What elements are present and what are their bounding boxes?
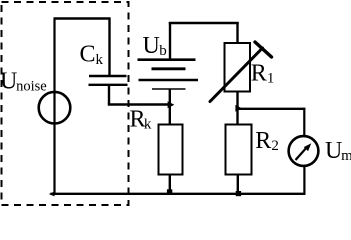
meter needle shaft xyxy=(296,148,307,160)
capacitor C_k top plate xyxy=(89,75,127,77)
meter needle arrowhead xyxy=(304,143,312,151)
svg-text:Ub: Ub xyxy=(143,33,167,59)
svg-text:Ck: Ck xyxy=(80,42,104,68)
wire: bottom bus xyxy=(51,193,306,195)
svg-text:Rk: Rk xyxy=(130,106,152,132)
svg-text:R2: R2 xyxy=(255,128,279,154)
wire: C_k top lead xyxy=(108,18,110,77)
wire: R2 bottom lead xyxy=(237,175,239,195)
battery U_b plate 4 (short thin) xyxy=(152,88,186,90)
wire: top horizontal U_noise to C_k xyxy=(54,17,111,19)
wire: battery bottom lead to R_k xyxy=(169,89,171,125)
battery U_b plate 2 (short) xyxy=(152,67,186,70)
adjustable arrow diagonal through R1 xyxy=(210,48,263,102)
svg-text:Um: Um xyxy=(325,138,351,164)
wire: R1 bottom lead to R2 xyxy=(236,92,238,126)
wire: horizontal node to meter xyxy=(238,108,305,110)
wire: U_noise vertical branch xyxy=(53,19,55,195)
wire: R_k bottom lead xyxy=(169,175,171,195)
svg-text:R1: R1 xyxy=(251,61,275,87)
junction arrow at battery node xyxy=(168,101,175,108)
battery U_b plate 1 (long) xyxy=(138,58,196,61)
capacitor C_k bottom plate xyxy=(89,84,128,86)
wire: meter bottom lead xyxy=(303,167,305,195)
junction dot at R_k bottom node xyxy=(167,189,172,194)
wire: battery top lead xyxy=(169,22,171,60)
wire: C_k bottom lead xyxy=(108,85,110,105)
resistor R_k box xyxy=(159,125,183,175)
dashed box (noise source boundary) xyxy=(2,2,129,205)
wire: top horizontal battery to R1 xyxy=(169,22,239,24)
resistor R1 box xyxy=(225,43,251,92)
wire: R1 top lead xyxy=(236,22,238,44)
meter U_m circle xyxy=(289,136,319,166)
svg-text:Unoise: Unoise xyxy=(0,68,47,94)
adjustable arrow crossbar at R1 xyxy=(255,42,272,57)
wire: meter top lead xyxy=(303,108,305,136)
battery U_b plate 3 (long) xyxy=(139,79,199,82)
wire: horizontal C_k to battery node xyxy=(108,103,169,105)
resistor R2 box xyxy=(226,125,252,175)
junction arrow at R1/R2 node xyxy=(235,105,242,112)
arrow terminal at bottom-left of bus xyxy=(49,192,55,197)
voltage source U_noise circle xyxy=(39,92,71,124)
junction dot at R2 bottom node xyxy=(236,191,241,196)
